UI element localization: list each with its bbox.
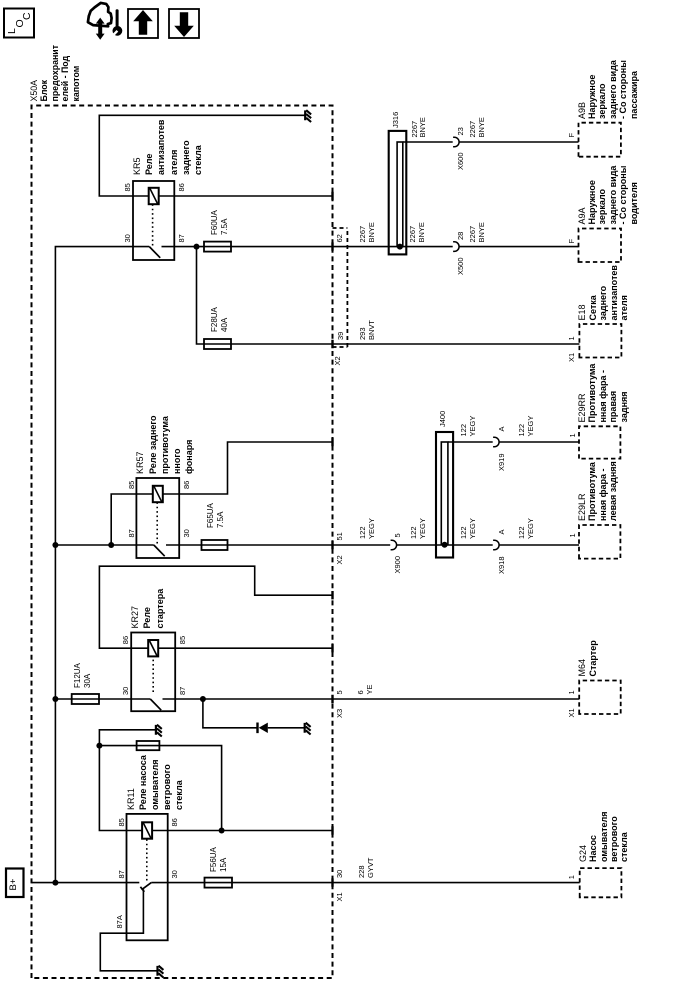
pin 30 KR5 <box>123 234 132 242</box>
label wire 2267 BNYE at A9B <box>469 121 478 138</box>
connector X2 band <box>333 346 348 348</box>
wire KR27 pin85 to X2 stub <box>175 647 332 649</box>
junction starter diode tap <box>200 696 206 702</box>
label E29LR fog lamp <box>577 493 587 521</box>
tick KR27 pin85 stub <box>331 644 333 652</box>
component A9B passenger mirror box <box>579 123 621 157</box>
label relay KR5 <box>131 157 143 175</box>
junction resistor tap <box>96 743 102 749</box>
junction resistor to pin86 wire <box>219 828 225 834</box>
relay KR5 switch contact 30 <box>133 246 149 248</box>
wire KR11 pin30 to washer pump G24 <box>168 882 580 884</box>
label wire 122 YEGY at X2-51 <box>359 526 368 539</box>
pin A X919 <box>497 426 506 431</box>
pin 30 KR11 <box>170 870 179 878</box>
ground starter diode <box>304 723 306 733</box>
wire KR11 pin86 to X1 stub <box>168 830 333 832</box>
page-back arrow button <box>169 9 199 38</box>
wire X919 to E29RR <box>499 441 579 443</box>
relay KR27 actuation dotted link <box>152 657 154 692</box>
wire J400 to X918 <box>448 544 493 546</box>
page-forward arrow button <box>128 9 158 38</box>
wire KR27 coil pin85 segment <box>158 647 175 649</box>
component E18 defogger grid box <box>579 324 621 358</box>
label A9A mirror <box>577 207 587 224</box>
label wire 2267 BNYE at X2 <box>359 226 368 243</box>
component E29LR left rear fog lamp box <box>579 525 620 559</box>
label wire 228 GYVT <box>358 865 367 878</box>
splice connector J400 bus bar <box>441 442 448 545</box>
label relay KR11 <box>125 788 137 810</box>
ground KR11 coil <box>155 725 157 735</box>
vehicle navigation icon <box>88 3 122 40</box>
tick KR57 pin86 stub <box>331 438 333 446</box>
pin 85 KR11 <box>117 818 126 826</box>
wire KR5 coil pin86 segment <box>159 195 175 197</box>
wire KR5 pin85 to ground <box>99 115 304 196</box>
relay KR27 switch blade <box>150 699 161 710</box>
label F28UA 40A <box>210 307 220 332</box>
wire KR27 pin87 to starter M64 <box>175 698 579 700</box>
wire X500 to A9A <box>459 246 578 248</box>
pin 51 X2 <box>335 532 344 540</box>
pin 39 X2 <box>336 332 345 340</box>
label connector X918 <box>497 557 506 575</box>
relay KR5 coil <box>149 188 159 204</box>
fuse F60UA <box>204 242 231 252</box>
diode starter suppression <box>256 723 258 734</box>
pin 30 KR27 <box>121 687 130 695</box>
label F65UA 7.5A <box>206 503 216 528</box>
junction J400 splice <box>442 542 448 548</box>
pin 62 X2 <box>335 234 344 242</box>
tick X1 pin30 crossing <box>331 878 333 886</box>
pin 30 KR57 <box>182 529 191 537</box>
label connector X919 <box>497 454 506 472</box>
wire KR11 pin85 to ground <box>99 730 155 831</box>
wire J316 tap to A9B <box>403 141 453 143</box>
relay KR57 switch contact 87 <box>136 544 153 546</box>
relay KR11 box <box>127 814 168 940</box>
label connector J316 <box>391 112 400 128</box>
relay KR57 switch contact 30 <box>166 544 179 546</box>
label wire 6 YE <box>357 690 366 694</box>
wire KR57 coil pin85 segment <box>136 493 152 495</box>
wire KR11 87A contact <box>100 889 157 971</box>
relay KR57 switch blade <box>154 545 165 556</box>
splice connector J316 bus bar <box>397 142 403 247</box>
wire KR5 pin86 to X2 stub <box>174 195 332 197</box>
label B+ <box>8 879 19 891</box>
pin 85 KR27 <box>178 636 187 644</box>
relay KR11 switch blade <box>142 883 152 890</box>
label A9B mirror <box>577 102 587 119</box>
pin 86 KR5 <box>177 183 186 191</box>
label wire 122 YEGY at E29LR <box>518 526 527 539</box>
relay KR11 blade tip tick <box>140 887 144 892</box>
fuse F12UA <box>72 694 99 704</box>
label connector J400 <box>438 411 447 427</box>
label wire 293 BNVT <box>359 327 368 340</box>
wire X900 to J400 <box>397 544 448 546</box>
inline connector X919 <box>493 437 499 447</box>
pin 87 KR57 <box>127 529 136 537</box>
inline connector X600 <box>453 137 459 147</box>
wire KR27 feed drop <box>55 698 131 700</box>
relay KR57 box <box>136 478 179 558</box>
label connector X3 <box>335 709 344 718</box>
pin 1 G24 <box>567 875 576 879</box>
label F60UA 7.5A <box>210 210 220 235</box>
wire diode to ground <box>268 727 304 729</box>
inline connector X900 <box>391 540 397 550</box>
pin 28 X500 <box>456 232 465 240</box>
label connector X2 lower <box>335 555 344 564</box>
pin 87 KR11 <box>117 870 126 878</box>
label G24 washer pump <box>578 845 588 862</box>
label connector X2 upper <box>333 356 342 365</box>
fuse F28UA <box>204 339 231 349</box>
component G24 washer pump box <box>580 868 622 897</box>
wire KR27 pin86 control loop <box>99 566 332 648</box>
label wire 2267 BNYE to X600 <box>411 121 420 138</box>
label relay KR27 <box>129 606 141 629</box>
LOC icon box <box>4 9 34 38</box>
junction F60UA F28UA split <box>194 244 200 250</box>
label M64 starter <box>577 659 587 677</box>
wire KR27 coil pin86 segment <box>131 647 148 649</box>
relay KR11 switch contact 87 <box>127 882 140 884</box>
label X50A fuse block <box>29 80 39 102</box>
fuse F65UA <box>202 540 228 550</box>
ground KR5 coil <box>304 110 306 120</box>
relay KR5 box <box>133 181 174 260</box>
relay KR27 coil <box>148 640 158 656</box>
wire KR57 pin85 branch <box>111 494 136 545</box>
relay KR27 box <box>131 633 175 712</box>
pin 85 KR5 <box>123 183 132 191</box>
relay KR5 switch contact 87 <box>162 246 175 248</box>
wire KR5 pin87 output <box>174 246 452 248</box>
label connector X1 lower <box>335 892 344 901</box>
resistor KR11 coil shunt <box>137 741 160 750</box>
fuse block X50A dashed outline <box>32 106 333 979</box>
relay KR11 coil <box>142 822 152 838</box>
label connector X900 <box>393 556 402 574</box>
label wire 122 YEGY at E29RR <box>518 424 527 437</box>
inline connector X500 <box>453 242 459 252</box>
wire J400 tap to X919 <box>448 441 493 443</box>
relay KR27 switch contact 30 <box>131 698 150 700</box>
LOC letter O <box>14 19 26 27</box>
label E18 defogger grid <box>577 304 587 320</box>
relay KR5 switch blade <box>149 247 160 258</box>
pin 1 E18 <box>567 336 576 340</box>
relay KR57 coil <box>153 486 163 502</box>
wire X918 to E29LR <box>499 544 579 546</box>
wire starter suppression diode branch <box>203 699 257 728</box>
wire X600 to A9B <box>459 141 578 143</box>
tick KR11 pin86 stub <box>331 826 333 834</box>
pin 5 X3 <box>335 690 344 694</box>
label F12UA 30A <box>73 663 83 688</box>
tick KR27 pin86 stub <box>331 591 333 599</box>
relay KR5 actuation dotted link <box>152 204 154 245</box>
tick X2 pin39 crossing <box>331 340 333 348</box>
wire battery bus <box>55 247 133 883</box>
pin F A9B <box>567 133 576 138</box>
relay KR57 actuation dotted link <box>156 502 158 543</box>
pin 1 M64 <box>567 690 576 694</box>
pin 86 KR27 <box>121 636 130 644</box>
wire KR57 pin30 to X2-51 <box>179 544 390 546</box>
tick X3 pin5 crossing <box>331 695 333 703</box>
pin 87A KR11 <box>115 915 124 928</box>
label connector X500 <box>456 258 465 276</box>
wire F28UA branch <box>197 247 580 344</box>
pin 87 KR27 <box>178 687 187 695</box>
wire KR11 coil pin86 segment <box>152 830 168 832</box>
label wire 122 YEGY to X918 <box>460 526 469 539</box>
LOC letter C <box>21 12 33 20</box>
pin 86 KR57 <box>182 481 191 489</box>
relay KR27 switch contact 87 <box>163 698 176 700</box>
LOC letter L <box>6 28 18 34</box>
label E29RR fog lamp <box>577 393 587 422</box>
wire KR57 coil pin86 segment <box>163 493 179 495</box>
splice connector J400 outer <box>436 432 453 558</box>
pin F A9A <box>567 239 576 244</box>
junction B+ tee <box>52 880 58 886</box>
label wire 2267 BNYE at A9A <box>469 226 478 243</box>
component A9A driver mirror box <box>579 229 622 263</box>
component E29RR right rear fog lamp box <box>579 426 620 458</box>
pin 85 KR57 <box>127 481 136 489</box>
label F56UA 15A <box>209 847 219 872</box>
wire KR5 coil pin85 segment <box>133 195 149 197</box>
junction J316 splice <box>397 244 403 250</box>
relay KR11 switch contact 30 <box>151 882 167 884</box>
label connector X1 M64 <box>567 708 576 717</box>
label connector X600 <box>456 153 465 171</box>
wire KR57 pin86 to X2 stub <box>179 442 332 494</box>
component M64 starter box <box>579 681 621 715</box>
fuse F56UA <box>205 878 233 888</box>
relay KR11 actuation dotted link <box>146 839 148 881</box>
battery B+ terminal <box>6 869 24 898</box>
wire KR57 feed drop <box>55 544 136 546</box>
wire resistor branch <box>99 746 221 831</box>
splice connector J316 outer <box>389 131 407 255</box>
wire B+ feed into fuse block <box>32 882 127 884</box>
label wire 122 YEGY to X919 <box>460 424 469 437</box>
pin 1 E29LR <box>568 533 577 537</box>
tick KR5 pin86 stub <box>331 192 333 200</box>
pin 86 KR11 <box>170 818 179 826</box>
label wire 122 YEGY at J400 <box>410 526 419 539</box>
label relay KR57 <box>134 451 146 474</box>
pin 87 KR5 <box>177 234 186 242</box>
wire KR11 coil pin85 segment <box>127 830 143 832</box>
tick X2 pin62 crossing <box>331 242 333 250</box>
inline connector X918 <box>493 540 499 550</box>
pin 1 E29RR <box>568 433 577 437</box>
junction KR57 coil tap <box>108 542 114 548</box>
label wire 2267 BNYE to X500 <box>409 226 418 243</box>
tick X2 pin51 crossing <box>331 541 333 549</box>
junction bus to KR57 <box>52 542 58 548</box>
pin 23 X600 <box>456 127 465 135</box>
label connector X1 E18 <box>567 353 576 362</box>
pin 30 X1 <box>335 870 344 878</box>
junction bus to F12UA <box>52 696 58 702</box>
pin 5 X900 <box>393 533 402 537</box>
ground KR11 87A <box>156 966 158 976</box>
pin A X918 <box>497 529 506 534</box>
